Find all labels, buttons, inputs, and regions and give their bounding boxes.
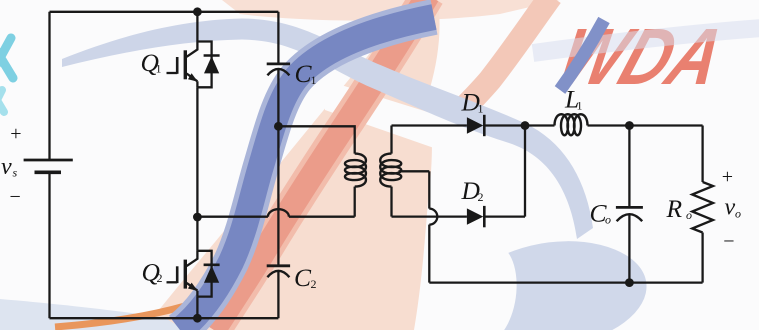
junction dot: D1 cathode node (521, 121, 530, 130)
blue slash over W (560, 20, 604, 90)
right rail down to resistor (701, 126, 703, 183)
white strip below light band (325, 80, 434, 148)
blue Z-swoosh (180, 17, 434, 330)
diode D2 (467, 208, 483, 224)
center tap (399, 170, 430, 172)
IGBT Q2 (167, 251, 220, 297)
capacitor Co (616, 206, 643, 209)
svg-text:−: − (723, 231, 734, 253)
Q1 antiparallel diode (197, 42, 211, 88)
svg-text:o: o (735, 207, 741, 221)
right rail below resistor (701, 233, 703, 283)
D2 to D1 junction vertical (524, 126, 526, 217)
junction dot: L1 / Co node (625, 121, 634, 130)
transformer primary winding (345, 154, 366, 187)
wire to top-right corner (629, 124, 702, 126)
inductor L1 (555, 114, 588, 135)
top rail (50, 11, 279, 13)
svg-text:2: 2 (478, 190, 484, 204)
faint band through WDA to top-right (533, 28, 759, 53)
primary bottom wire with hop (354, 187, 356, 217)
junction dot: bridge midpoint Q1/Q2 (193, 213, 202, 222)
peach right leg band (456, 0, 551, 116)
svg-text:o: o (605, 213, 611, 227)
capacitor C2 (267, 264, 290, 267)
transformer secondary winding (390, 126, 392, 154)
svg-text:1: 1 (156, 62, 162, 76)
primary top wire (278, 126, 354, 153)
svg-text:1: 1 (577, 99, 583, 113)
peach wide wash (right of salmon band, covers transformer area) (143, 0, 440, 330)
svg-text:C: C (294, 263, 312, 292)
cyan X glyph (0, 38, 13, 80)
Q2 column (196, 217, 198, 251)
svg-text:s: s (13, 166, 18, 180)
resistor Ro zigzag (692, 182, 713, 233)
secondary top wire to D1 (392, 124, 467, 126)
IGBT Q1 (167, 42, 220, 88)
peach top strip (222, 0, 560, 21)
battery vs short plate (35, 171, 62, 175)
Co column (628, 126, 630, 208)
svg-text:1: 1 (478, 102, 484, 116)
blue blob bottom right (457, 231, 652, 330)
Q1 emitter wire to midpoint (196, 87, 198, 217)
light sweep band: tail left, apex top, descending right (62, 19, 593, 240)
bottom-left pale blue wash (0, 299, 185, 330)
svg-text:1: 1 (311, 73, 317, 87)
svg-text:v: v (1, 154, 12, 180)
salmon band (deeper core) (214, 0, 428, 330)
white teardrop (455, 241, 522, 330)
svg-text:+: + (722, 166, 733, 188)
left rail lower (48, 172, 50, 318)
Q1 column from top rail (196, 12, 198, 42)
svg-text:2: 2 (157, 271, 163, 285)
C2 bottom wire (277, 272, 279, 319)
output bottom rail (429, 281, 702, 283)
capacitor C1 (267, 63, 290, 66)
Q2 antiparallel diode (197, 251, 211, 297)
battery vs long plate (24, 159, 73, 162)
svg-text:2: 2 (311, 277, 317, 291)
Q2 emitter wire to bottom rail (196, 297, 198, 319)
orange streak bottom-left (55, 306, 185, 327)
junction dot: Co bottom / output rail (625, 278, 634, 287)
diode D1 (467, 117, 483, 133)
left rail upper (48, 12, 50, 160)
C1-C2 vertical wire (277, 70, 279, 266)
bottom rail (50, 317, 279, 319)
junction dot: bottom rail / Q2 emitter (193, 314, 202, 323)
svg-text:+: + (10, 123, 21, 145)
junction dot: C1-C2 midpoint / primary top (274, 122, 283, 131)
svg-text:R: R (666, 194, 683, 223)
svg-text:v: v (725, 195, 736, 221)
wire from D1 node to L1 (525, 124, 555, 126)
svg-text:o: o (686, 208, 692, 222)
C1 column top wire (277, 12, 279, 64)
D2 wire from secondary bottom (392, 215, 467, 217)
junction dot: top rail / Q1 collector (193, 7, 202, 16)
svg-text:−: − (10, 186, 21, 208)
